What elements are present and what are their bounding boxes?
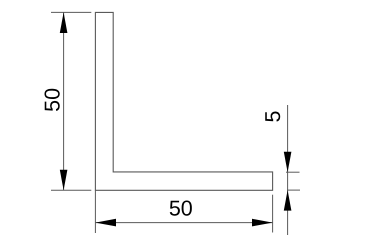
arrow left (bottom 50 dim) bbox=[95, 219, 116, 227]
arrow right (bottom 50 dim) bbox=[252, 219, 273, 227]
svg-text:50: 50 bbox=[169, 196, 193, 220]
dimension line vertical 50 bbox=[63, 12, 65, 190]
dimension line horizontal 50 bbox=[95, 222, 272, 224]
arrow up to bottom edge (right 5 dim) bbox=[284, 190, 292, 211]
svg-text:5: 5 bbox=[261, 110, 285, 122]
arrow down (left 50 dim) bbox=[60, 170, 68, 191]
L-profile outline bbox=[95, 12, 272, 190]
dimension line vertical 5 bbox=[287, 105, 289, 235]
svg-text:50: 50 bbox=[41, 88, 65, 112]
extension line left (bottom 50 dim) bbox=[94, 190, 96, 233]
extension line top (left 50 dim) bbox=[51, 11, 91, 13]
extension line right (bottom 50 dim) bbox=[272, 195, 274, 233]
extension line bottom (left 50 dim) bbox=[51, 189, 91, 191]
extension line upper (right 5 dim) bbox=[286, 171, 300, 173]
arrow up (left 50 dim) bbox=[60, 12, 68, 33]
extension line lower (right 5 dim) bbox=[287, 189, 300, 191]
arrow down to top edge (right 5 dim) bbox=[284, 152, 292, 173]
